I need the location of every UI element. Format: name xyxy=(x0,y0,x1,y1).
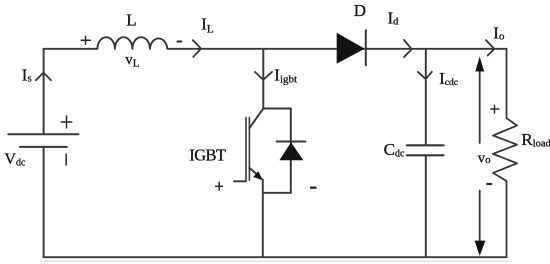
svg-text:vo: vo xyxy=(478,150,492,166)
svg-text:Is: Is xyxy=(22,65,32,84)
svg-text:Icdc: Icdc xyxy=(439,69,458,88)
svg-text:IGBT: IGBT xyxy=(189,146,226,165)
svg-text:L: L xyxy=(126,11,136,30)
svg-text:Rload: Rload xyxy=(521,130,550,150)
svg-text:Cdc: Cdc xyxy=(384,140,405,159)
svg-text:IL: IL xyxy=(201,15,214,36)
svg-text:vL: vL xyxy=(125,52,140,70)
svg-text:Id: Id xyxy=(388,9,400,28)
svg-text:Vdc: Vdc xyxy=(4,151,26,168)
svg-text:Iigbt: Iigbt xyxy=(274,65,297,85)
svg-text:Io: Io xyxy=(493,23,505,42)
svg-text:D: D xyxy=(354,1,366,20)
